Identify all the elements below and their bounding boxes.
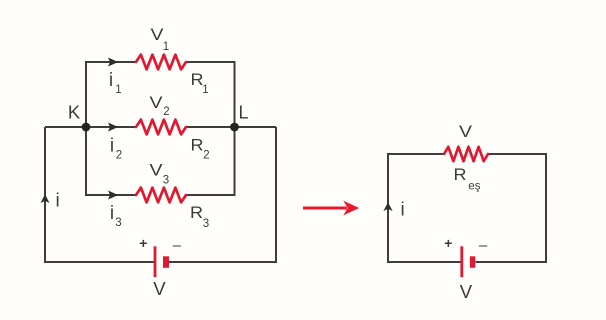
svg-text:R: R [191, 136, 204, 155]
svg-text:3: 3 [115, 217, 121, 229]
svg-text:i: i [55, 191, 59, 212]
svg-text:V: V [459, 122, 473, 141]
svg-text:1: 1 [163, 41, 169, 53]
svg-text:3: 3 [203, 218, 209, 230]
svg-text:1: 1 [115, 84, 121, 96]
svg-text:V: V [150, 93, 164, 112]
svg-text:L: L [238, 103, 248, 123]
svg-text:+: + [444, 235, 452, 251]
svg-text:3: 3 [163, 175, 169, 187]
svg-text:+: + [139, 235, 147, 251]
svg-text:V: V [460, 282, 472, 302]
svg-text:1: 1 [202, 84, 208, 96]
svg-text:V: V [153, 279, 165, 299]
svg-text:–: – [479, 237, 488, 254]
svg-text:R: R [454, 165, 467, 184]
svg-text:i: i [110, 203, 114, 224]
svg-text:–: – [173, 237, 182, 254]
svg-text:2: 2 [203, 150, 209, 162]
svg-text:i: i [400, 200, 404, 221]
svg-text:i: i [109, 70, 113, 91]
svg-text:V: V [150, 161, 164, 180]
svg-text:eş: eş [468, 181, 480, 193]
svg-text:R: R [190, 203, 203, 222]
svg-text:K: K [68, 103, 80, 123]
svg-text:2: 2 [116, 150, 122, 162]
svg-text:2: 2 [163, 106, 169, 118]
svg-text:i: i [110, 136, 114, 157]
